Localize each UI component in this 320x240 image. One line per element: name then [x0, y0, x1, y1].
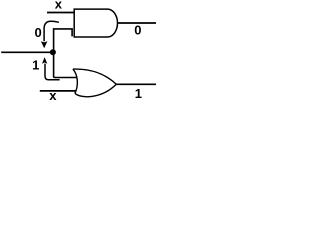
arrow 0 annotation (hook pointing down at wire)	[44, 21, 59, 41]
wire AND output	[118, 22, 157, 24]
svg-text:x: x	[49, 88, 57, 101]
wire branch up to AND lower input (jog)	[54, 29, 73, 52]
OR gate U2 top edge	[73, 69, 116, 84]
wire OR lower input (from bottom x)	[40, 90, 77, 92]
wire branch down to OR upper input	[54, 52, 78, 78]
wire OR output	[116, 83, 156, 85]
OR gate U2 bottom edge	[75, 84, 116, 96]
node junction dot	[50, 49, 56, 55]
OR gate U2 back arc	[73, 69, 77, 93]
svg-text:x: x	[55, 0, 63, 11]
svg-text:0: 0	[134, 23, 141, 38]
wire top input to AND	[47, 12, 75, 14]
svg-text:1: 1	[32, 57, 39, 72]
arrow 1 annotation (hook pointing up at wire)	[45, 64, 60, 80]
AND gate U1	[74, 9, 117, 37]
wire main left input	[1, 51, 52, 53]
svg-text:1: 1	[135, 86, 142, 101]
svg-text:0: 0	[34, 25, 41, 40]
